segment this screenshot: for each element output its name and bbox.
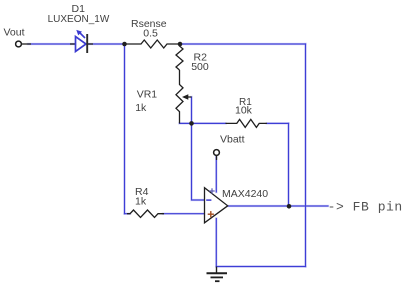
- svg-text:1k: 1k: [135, 195, 147, 207]
- resistor R4: [127, 186, 164, 217]
- svg-text:VR1: VR1: [137, 89, 158, 101]
- svg-text:1k: 1k: [135, 102, 147, 114]
- node C junction: [189, 121, 194, 126]
- positive supply marker: [209, 188, 214, 193]
- node D output junction: [287, 204, 292, 209]
- potentiometer VR1: [135, 70, 191, 123]
- svg-text:MAX4240: MAX4240: [222, 188, 268, 200]
- minus input marker: [206, 199, 211, 201]
- terminal Vbatt: [214, 133, 245, 160]
- svg-text:500: 500: [191, 61, 209, 73]
- svg-text:LUXEON_1W: LUXEON_1W: [48, 14, 110, 25]
- diode D1: [48, 3, 110, 53]
- resistor Rsense: [125, 18, 181, 48]
- node A junction: [122, 42, 127, 47]
- plus input marker: [208, 211, 214, 217]
- wire halo: [28, 44, 328, 267]
- wire core: [28, 44, 328, 267]
- op-amp U1 MAX4240: [205, 188, 269, 223]
- resistor R1: [226, 97, 267, 128]
- terminal Vout: [4, 27, 32, 47]
- svg-text:Vbatt: Vbatt: [220, 133, 245, 145]
- ground: [207, 267, 228, 282]
- svg-text:0.5: 0.5: [143, 27, 158, 39]
- node B junction: [178, 42, 183, 47]
- svg-text:10k: 10k: [235, 105, 253, 117]
- svg-text:Vout: Vout: [4, 27, 25, 39]
- resistor R2: [176, 44, 209, 73]
- svg-text:-> FB pin: -> FB pin: [328, 199, 403, 214]
